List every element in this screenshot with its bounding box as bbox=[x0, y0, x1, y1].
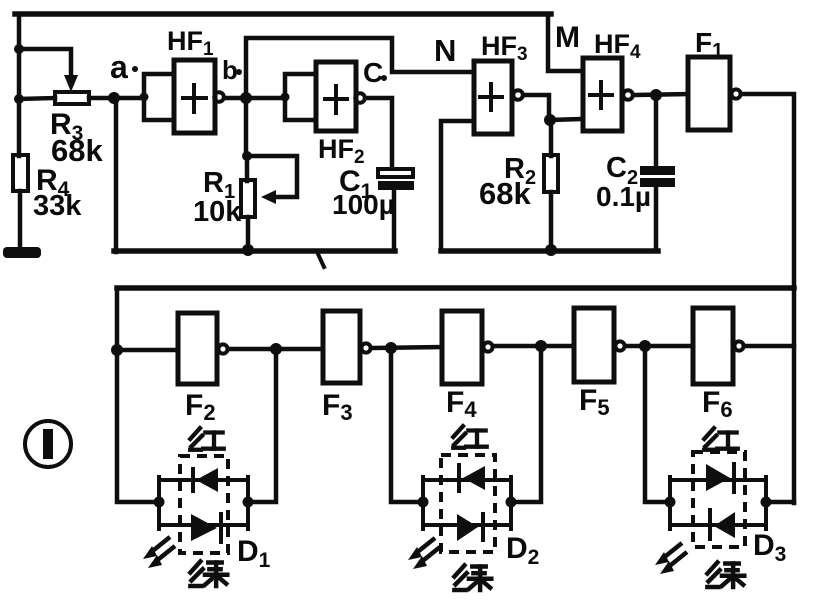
label C1 bbox=[339, 165, 373, 203]
label HF1 bbox=[167, 26, 214, 60]
label C2 bbox=[606, 152, 638, 189]
wire: chain input to F2 bbox=[117, 348, 178, 353]
D1 dashed LED outline bbox=[180, 456, 228, 553]
label green (D2) bbox=[454, 565, 491, 590]
wire: HF1 output to node b bbox=[226, 96, 248, 101]
label R2 bbox=[504, 153, 536, 189]
wire: left column down from bus to D1 left terminal bbox=[117, 288, 159, 502]
label node c bbox=[363, 57, 387, 88]
buffer F6 box bbox=[693, 308, 733, 384]
svg-text:F6: F6 bbox=[702, 386, 733, 422]
HF2 output bubble bbox=[355, 93, 365, 103]
label node N bbox=[434, 33, 456, 68]
buffer F3 box bbox=[323, 311, 360, 383]
D1 right terminal dot bbox=[243, 497, 254, 508]
svg-text:F4: F4 bbox=[446, 386, 477, 422]
label R3 bbox=[50, 108, 83, 145]
capacitor C1 top plate bbox=[378, 169, 413, 177]
label red (D1) bbox=[190, 428, 223, 450]
svg-text:HF2: HF2 bbox=[318, 134, 365, 168]
label F3 bbox=[322, 389, 353, 425]
label green (D3) bbox=[707, 562, 744, 587]
wire: stage-1 bottom rail bbox=[114, 251, 395, 267]
junction: wiper tap on left rail bbox=[14, 44, 24, 54]
junction: D2 right tap after F4 bbox=[535, 340, 547, 352]
wire: HF2 output right and down to C1 bbox=[367, 98, 392, 167]
wire: node M drop from top rail to HF4 upper input bbox=[548, 14, 583, 71]
HF1 output bubble bbox=[214, 92, 224, 102]
D3 red LED (points right) bbox=[706, 464, 734, 492]
HF3 plus sign bbox=[480, 84, 502, 110]
F6 output bubble bbox=[734, 341, 743, 350]
potentiometer R3 wiper arrow bbox=[64, 75, 78, 92]
svg-text:N: N bbox=[434, 33, 456, 68]
junction: R1 on bottom rail bbox=[242, 244, 254, 256]
svg-text:M: M bbox=[555, 21, 580, 54]
D3 right terminal dot bbox=[761, 497, 772, 508]
F1 output bubble bbox=[731, 89, 740, 98]
label R4 bbox=[36, 164, 70, 201]
label red (D2) bbox=[453, 426, 486, 448]
HF1 plus sign bbox=[183, 85, 206, 112]
label node b bbox=[222, 55, 242, 85]
D1 light emission arrows bbox=[143, 537, 175, 568]
LED pair D1 parallel loop bbox=[159, 477, 248, 529]
wire: tap down to D2 left terminal bbox=[391, 348, 423, 502]
figure number 1 in circle bbox=[25, 421, 71, 467]
D2 red LED (points left) bbox=[459, 465, 485, 491]
wire: R2 bottom to stage-2 bottom rail bbox=[549, 192, 554, 250]
D2 dashed LED outline bbox=[441, 455, 495, 552]
wire: HF1 tied-input loop bbox=[140, 74, 176, 120]
LED pair D2 parallel loop bbox=[423, 477, 511, 529]
wire: feedback bus from right edge to F2 input column bbox=[117, 285, 794, 291]
label F6 bbox=[702, 386, 733, 422]
svg-text:33k: 33k bbox=[33, 190, 82, 222]
label HF2 bbox=[318, 134, 365, 168]
svg-text:C: C bbox=[363, 57, 383, 88]
svg-text:10k: 10k bbox=[193, 196, 242, 228]
wire: HF3 lower input to stage-2 bottom rail bbox=[441, 121, 475, 250]
label R1 bbox=[203, 167, 235, 203]
svg-text:HF4: HF4 bbox=[594, 29, 641, 63]
svg-text:F5: F5 bbox=[579, 384, 610, 420]
wire: R1 wiper loop bbox=[247, 156, 297, 197]
wire: F6 output to right edge column bbox=[745, 344, 794, 349]
HF4 plus sign bbox=[590, 82, 612, 108]
wire: C1 bottom down to stage-1 bottom rail bbox=[392, 189, 397, 250]
wire: tap to R3 wiper arrow bbox=[19, 49, 71, 78]
wire: junction down to C2 bbox=[654, 95, 659, 165]
inverter HF2 box bbox=[316, 62, 356, 131]
resistor R4 body bbox=[13, 155, 28, 191]
wire: node down to R2 bbox=[549, 120, 554, 156]
wire: F1 output right and down the right edge to D3 bbox=[742, 94, 794, 503]
R1 wiper arrowhead bbox=[261, 190, 276, 204]
wire: node a down to stage-1 bottom rail bbox=[114, 98, 119, 252]
wire: node b feedback loop over HF2 to node N / HF3 input bbox=[246, 38, 475, 98]
inverter HF4 box bbox=[583, 58, 622, 131]
junction: R1 top / wiper loop bbox=[242, 151, 252, 161]
wire: stage-2 bottom rail bbox=[441, 248, 658, 254]
wire: node b down to R1 bbox=[244, 98, 249, 157]
resistor R1 body (rheostat) bbox=[241, 180, 255, 217]
junction: D1 right tap after F2 bbox=[270, 343, 282, 355]
wire: R1 bottom to stage-1 bottom rail bbox=[246, 217, 251, 252]
resistor R2 body bbox=[544, 155, 558, 192]
label 100u (C1 value) bbox=[332, 189, 395, 220]
svg-text:a: a bbox=[110, 49, 128, 85]
F4 output bubble bbox=[483, 342, 492, 351]
D1 left terminal dot bbox=[154, 497, 165, 508]
label HF4 bbox=[594, 29, 641, 63]
svg-text:F3: F3 bbox=[322, 389, 353, 425]
buffer F1 box bbox=[688, 57, 730, 130]
junction: left rail / R3 left end bbox=[14, 94, 55, 104]
label D1 bbox=[237, 535, 271, 572]
D3 left terminal dot bbox=[665, 497, 676, 508]
D1 red LED (points left) bbox=[193, 468, 218, 492]
label 10k (R1 value) bbox=[193, 196, 242, 228]
capacitor C2 bottom plate bbox=[640, 178, 675, 187]
wire: R4 bottom to ground bbox=[18, 191, 23, 249]
wire: F3 output to F4 input bbox=[372, 347, 442, 348]
junction: R2 on stage-2 bottom rail bbox=[545, 244, 557, 256]
F2 output bubble bbox=[218, 344, 227, 353]
D2 light emission arrows bbox=[408, 538, 440, 569]
D3 green LED (points left) bbox=[710, 510, 735, 539]
wire: tap down to D2 right terminal bbox=[511, 346, 541, 502]
D3 dashed LED outline bbox=[693, 452, 745, 547]
svg-text:D3: D3 bbox=[753, 529, 786, 566]
svg-text:D1: D1 bbox=[237, 535, 271, 572]
F3 output bubble bbox=[361, 343, 370, 352]
label green (D1) bbox=[190, 561, 227, 586]
D2 right terminal dot bbox=[506, 497, 517, 508]
svg-text:100µ: 100µ bbox=[332, 189, 395, 220]
svg-text:68k: 68k bbox=[51, 133, 103, 168]
buffer F2 box bbox=[178, 313, 217, 384]
svg-text:HF1: HF1 bbox=[167, 26, 214, 60]
capacitor C2 top plate bbox=[640, 166, 675, 175]
svg-text:D2: D2 bbox=[506, 532, 539, 569]
label 68k (R3 value) bbox=[51, 133, 103, 168]
wire: HF3 output to R2 node and HF4 lower input bbox=[524, 95, 583, 120]
label HF3 bbox=[481, 31, 528, 65]
svg-text:68k: 68k bbox=[479, 176, 531, 211]
svg-text:HF3: HF3 bbox=[481, 31, 528, 65]
label F2 bbox=[185, 389, 216, 425]
wire: loop junction down to R1 body bbox=[245, 156, 250, 181]
buffer F4 box bbox=[442, 311, 482, 384]
svg-text:F1: F1 bbox=[695, 27, 723, 62]
D1 green LED (points right) bbox=[191, 514, 221, 542]
label 33k (R4 value) bbox=[33, 190, 82, 222]
svg-text:0.1µ: 0.1µ bbox=[596, 181, 651, 212]
HF4 output bubble bbox=[623, 90, 633, 100]
resistor R3 body bbox=[55, 92, 89, 104]
label D2 bbox=[506, 532, 539, 569]
label 0.1u (C2 value) bbox=[596, 181, 651, 212]
inverter HF3 box bbox=[474, 61, 512, 134]
wire: node b to HF2 tied-input loop bbox=[246, 96, 284, 101]
label F5 bbox=[579, 384, 610, 420]
D3 light emission arrows bbox=[655, 543, 687, 574]
wire: top supply rail bbox=[15, 11, 551, 17]
label red (D3) bbox=[704, 428, 737, 450]
label F1 bbox=[695, 27, 723, 62]
junction: D3 left tap after F5 bbox=[639, 340, 651, 352]
label D3 bbox=[753, 529, 786, 566]
wire: R3 right end to node a bbox=[89, 96, 143, 101]
wire: F4 output to F5 input bbox=[494, 344, 574, 349]
label node M bbox=[555, 21, 580, 54]
svg-text:b: b bbox=[222, 55, 238, 85]
HF3 output bubble bbox=[513, 90, 523, 100]
wire: left vertical rail down to R4 bbox=[17, 14, 22, 156]
wire: F2 output to F3 input bbox=[229, 347, 323, 352]
label F4 bbox=[446, 386, 477, 422]
ground symbol bbox=[3, 247, 41, 258]
node a junction dot bbox=[108, 92, 120, 104]
junction: D2 left tap after F3 bbox=[385, 342, 397, 354]
junction: R2 top node bbox=[544, 114, 556, 126]
wire: tap down to D3 left terminal bbox=[645, 346, 670, 502]
F5 output bubble bbox=[615, 341, 624, 350]
junction: F2 input node bbox=[111, 344, 123, 356]
wire: tap down to D1 right terminal bbox=[248, 349, 276, 502]
label 68k (R2 value) bbox=[479, 176, 531, 211]
buffer F5 box bbox=[574, 308, 614, 382]
junction: C2 tap on HF4 output bbox=[650, 89, 662, 101]
D2 left terminal dot bbox=[418, 497, 429, 508]
svg-text:F2: F2 bbox=[185, 389, 216, 425]
wire: HF2 tied-input loop bbox=[281, 74, 318, 120]
wire: C2 bottom to stage-2 bottom rail bbox=[654, 186, 659, 250]
HF2 plus sign bbox=[325, 86, 347, 113]
LED pair D3 parallel loop bbox=[670, 477, 766, 529]
label node a bbox=[110, 49, 138, 85]
capacitor C1 bottom plate bbox=[378, 181, 414, 190]
D2 green LED (points right) bbox=[457, 514, 483, 541]
node b junction dot bbox=[240, 92, 252, 104]
wire: right edge to D3 right terminal bbox=[766, 500, 794, 505]
inverter HF1 box bbox=[174, 60, 215, 133]
wire: HF4 output to F1 input bbox=[634, 94, 688, 95]
wire: F5 output to F6 input bbox=[626, 344, 693, 349]
